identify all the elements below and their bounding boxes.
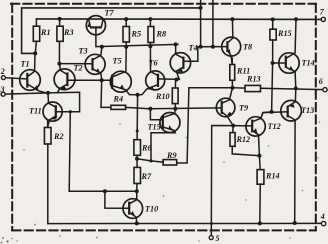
- svg-text:T10: T10: [145, 205, 158, 214]
- transistor T11: [43, 93, 62, 128]
- terminal 7: [321, 17, 325, 21]
- wire T14 base: [273, 62, 286, 64]
- node T9 emitter/R12/T12 base: [231, 124, 235, 128]
- wire input 3 / emitters: [5, 92, 80, 111]
- node R10 bottom/T15 collector: [173, 107, 177, 111]
- transistor T7: [86, 16, 105, 35]
- resistor R5: [123, 19, 129, 47]
- svg-text:R6: R6: [141, 144, 152, 153]
- wire T4 base: [183, 60, 197, 62]
- svg-text:T8: T8: [243, 43, 252, 52]
- wire T5/T6 emitters to R6: [136, 95, 139, 140]
- svg-text:R4: R4: [113, 95, 124, 104]
- resistor R3: [57, 19, 63, 64]
- svg-text:T9: T9: [239, 104, 248, 113]
- node pin8/T8 base: [211, 45, 215, 49]
- wire T12 collector to T13 base: [261, 112, 288, 119]
- svg-text:R7: R7: [141, 172, 152, 181]
- node T4 collector: [174, 42, 178, 46]
- node T15 base tap: [148, 107, 152, 111]
- node T8 collector rail: [230, 17, 234, 21]
- svg-text:R14: R14: [265, 172, 280, 181]
- svg-text:R2: R2: [53, 132, 64, 141]
- svg-text:R15: R15: [277, 29, 292, 38]
- svg-text:R1: R1: [40, 28, 51, 37]
- resistor R8: [148, 19, 154, 46]
- node T11 base leg: [69, 110, 72, 113]
- svg-text:2: 2: [0, 67, 5, 76]
- resistor R12: [230, 126, 259, 156]
- svg-text:R8: R8: [156, 29, 167, 38]
- resistor R10: [172, 80, 178, 109]
- svg-text:T7: T7: [105, 9, 115, 18]
- resistor R6: [134, 140, 141, 159]
- node pin1/T8 base: [199, 45, 203, 49]
- node T3 collector: [100, 45, 104, 49]
- wire T2 base / T3 emitter / T5 base: [67, 79, 112, 81]
- resistor R2: [44, 121, 51, 224]
- wire rail B (V+ rail to pin 7): [36, 18, 321, 21]
- svg-text:T13: T13: [301, 106, 314, 115]
- transistor T1: [20, 53, 46, 93]
- svg-text:3: 3: [0, 85, 5, 94]
- resistor R11: [230, 58, 235, 88]
- wire T9 emitter node to T12 base: [233, 125, 252, 127]
- node T14 collector rail: [294, 17, 298, 21]
- svg-text:T2: T2: [74, 64, 83, 73]
- transistor T13: [281, 88, 302, 222]
- transistor T9: [216, 88, 235, 126]
- node T10 base leg: [103, 189, 107, 193]
- resistor R7: [134, 159, 141, 192]
- transistor T10: [123, 191, 143, 223]
- node R15/T14 base: [271, 61, 275, 65]
- svg-text:T3: T3: [79, 47, 88, 56]
- node output/T14 emitter/T13 collector: [294, 86, 298, 90]
- transistor T14: [279, 19, 299, 88]
- terminal 2: [1, 76, 5, 80]
- node T3 emitter/T5 base/T2 base: [100, 78, 104, 82]
- svg-text:T15: T15: [148, 123, 161, 132]
- wire T3 base: [59, 63, 92, 65]
- node pin5 rail crossing: [210, 222, 213, 225]
- node R5 bottom: [124, 45, 128, 49]
- wire T7 base / R5 R8 bottoms / T3 T4 collectors net: [96, 27, 178, 46]
- transistor T6: [138, 46, 165, 94]
- terminal 5: [209, 236, 213, 240]
- wire T6 base / T4 emitter / R10 top: [158, 78, 179, 81]
- resistor R14: [257, 156, 264, 223]
- resistor R9: [151, 160, 177, 165]
- transistor T3: [85, 47, 105, 80]
- node R15 rail: [271, 17, 275, 21]
- node R15 chain/T13 base: [270, 110, 274, 114]
- pin 8 lead (top): [212, 1, 214, 47]
- resistor R13: [233, 85, 261, 91]
- resistor R4: [101, 80, 150, 109]
- wire R6/R7 junction to R9: [137, 159, 151, 161]
- svg-text:R3: R3: [63, 28, 74, 37]
- node T5/T6 emitters: [136, 93, 140, 97]
- svg-text:T5: T5: [113, 57, 122, 66]
- node T10 emitter rail: [135, 221, 139, 225]
- svg-text:R13: R13: [246, 75, 261, 84]
- svg-text:R5: R5: [131, 29, 142, 38]
- wire base net to T9 base: [150, 107, 221, 110]
- transistor T12: [246, 112, 272, 156]
- wire input 2: [5, 78, 27, 79]
- node R6/R7 junction: [135, 157, 139, 161]
- transistor T15: [150, 109, 180, 161]
- wire T11 mirror down-leg: [69, 112, 137, 192]
- svg-text:T6: T6: [149, 59, 159, 68]
- terminal 6: [323, 88, 327, 92]
- wire T9 collector node to R9: [177, 88, 233, 163]
- node R11 bottom/T9 collector/R13: [231, 86, 235, 90]
- svg-text:R10: R10: [155, 92, 170, 101]
- wire output net to pin 6: [261, 88, 323, 89]
- node T4 emitter/T6 base/R10: [175, 78, 179, 82]
- node T15 emitter/R9 wire: [149, 159, 152, 162]
- wire T10 base leg: [105, 191, 129, 208]
- node R3/T2 collector/T3 base: [57, 62, 61, 66]
- node R7 bottom/T10 collector: [135, 189, 139, 193]
- svg-text:T4: T4: [189, 44, 198, 53]
- pin 1 lead (top): [200, 0, 202, 47]
- transistor T4: [170, 44, 190, 79]
- svg-text:T14: T14: [302, 59, 315, 68]
- svg-text:6: 6: [319, 77, 323, 86]
- terminal 3: [1, 92, 5, 96]
- node R8 bottom: [148, 44, 152, 48]
- node R8 rail: [148, 17, 152, 21]
- wire rail A (compensation rail, y=8): [22, 8, 201, 54]
- svg-text:4: 4: [320, 212, 325, 221]
- node rail A / pin1: [199, 6, 203, 10]
- node R3 top rail: [58, 17, 62, 21]
- svg-text:T11: T11: [29, 107, 42, 116]
- node R5 rail: [124, 17, 128, 21]
- resistor R15: [270, 19, 276, 63]
- svg-text:R9: R9: [166, 151, 177, 160]
- resistor R1: [33, 19, 39, 54]
- node R6 stem blob: [136, 130, 139, 133]
- transistor T5: [110, 47, 137, 95]
- svg-text:T1: T1: [21, 60, 30, 69]
- wire T8 base net: [198, 47, 228, 62]
- node T1 emitter/T11 collector: [46, 91, 50, 95]
- node R14 rail: [258, 221, 262, 225]
- svg-text:T12: T12: [268, 122, 281, 131]
- svg-text:R12: R12: [236, 135, 251, 144]
- transistor T8: [222, 19, 241, 64]
- wire pin 5 leg: [211, 126, 233, 236]
- node T13 emitter rail: [293, 221, 297, 225]
- wire R15 chain down to T12 collector node: [272, 63, 273, 112]
- terminal 4: [321, 221, 325, 225]
- node R1/T1 collector: [33, 51, 37, 55]
- wire V- bottom rail to pin 4: [48, 222, 322, 224]
- svg-text:5: 5: [216, 234, 220, 243]
- node R12/T12 emitter/R14: [257, 154, 261, 158]
- transistor T2: [54, 64, 75, 93]
